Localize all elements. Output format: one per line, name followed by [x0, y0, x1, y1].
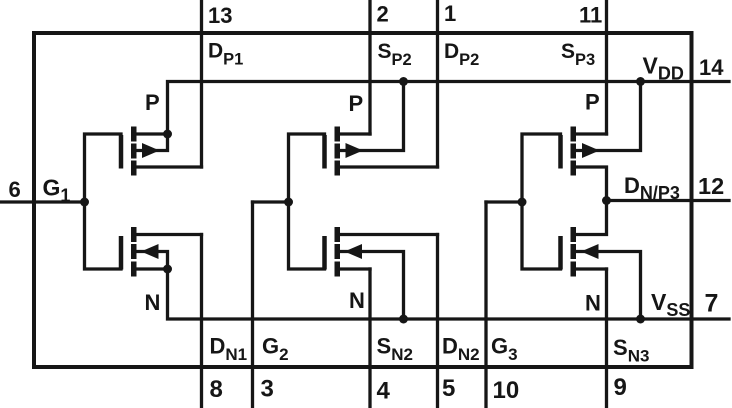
svg-text:3: 3	[261, 376, 274, 403]
drain lead N2	[339, 233, 438, 236]
svg-text:P: P	[585, 90, 600, 115]
channel dashes N1	[131, 227, 137, 277]
junction node G1	[80, 198, 89, 207]
gate bar N2	[322, 236, 327, 270]
svg-text:DP1: DP1	[208, 40, 243, 69]
svg-text:G3: G3	[491, 334, 518, 365]
gate bar N1	[119, 236, 124, 270]
source lead N2	[339, 267, 371, 270]
channel dashes N2	[335, 227, 341, 277]
pin 5 stub / wire D_N2	[436, 235, 439, 408]
pin 6 lead / node G1	[0, 200, 85, 203]
svg-text:7: 7	[705, 290, 719, 318]
junction P2 bulk on VDD rail	[399, 77, 408, 86]
wire gate lead N2	[289, 202, 325, 269]
svg-text:N: N	[145, 290, 161, 315]
svg-text:DN2: DN2	[442, 334, 480, 365]
drain lead N1	[135, 233, 202, 236]
svg-text:G2: G2	[262, 334, 289, 365]
junction node G2	[284, 198, 293, 207]
channel dashes N3	[571, 227, 577, 277]
gate bar N3	[558, 236, 563, 270]
wire G2 horizontal	[253, 200, 289, 203]
wire gate lead P2	[289, 134, 325, 202]
channel dashes P3	[571, 127, 577, 176]
p-mos P3	[522, 77, 645, 202]
svg-text:SP3: SP3	[561, 40, 595, 69]
source lead N3	[575, 267, 607, 270]
source lead P2	[339, 132, 371, 135]
svg-text:14: 14	[699, 55, 724, 80]
drain lead P1	[135, 165, 202, 168]
gate bar P2	[322, 135, 327, 169]
junction P3 bulk on VDD rail	[636, 77, 645, 86]
svg-text:2: 2	[377, 2, 389, 27]
svg-text:11: 11	[579, 3, 602, 28]
svg-text:SN2: SN2	[377, 334, 413, 365]
junction node D_N/P3	[602, 196, 611, 205]
svg-text:VDD: VDD	[643, 53, 684, 84]
svg-text:P: P	[349, 91, 364, 116]
n-mos N1	[85, 202, 202, 277]
gate bar P3	[558, 135, 563, 169]
source lead N1	[135, 267, 168, 270]
svg-text:SP2: SP2	[378, 40, 412, 69]
svg-text:N: N	[349, 288, 365, 313]
pin 2 stub / wire to S_P2 source	[368, 0, 371, 134]
pin 13 stub / wire to D_P1 drain	[200, 0, 203, 167]
drain lead P3 down to node D_N/P3	[575, 167, 607, 201]
op P-MOS P1	[85, 127, 202, 203]
VSS rail (pin 7 net)	[168, 269, 730, 319]
bulk lead N3 with arrow to VSS	[575, 252, 641, 320]
junction node G3	[518, 198, 527, 207]
VDD rail (pin 14 net)	[168, 82, 730, 135]
n-mos N2	[289, 202, 438, 324]
svg-text:VSS: VSS	[651, 289, 690, 320]
pin 11 stub / wire to S_P3 source	[605, 0, 608, 134]
bulk lead P1 with arrow	[135, 134, 168, 151]
node D_N/P3 wire to pin 12	[607, 199, 730, 202]
drain lead N3 up to node D_N/P3	[575, 201, 607, 235]
pin 9 stub / wire S_N3	[605, 269, 608, 408]
channel dashes P2	[335, 127, 341, 176]
svg-text:8: 8	[210, 376, 223, 403]
n-mos N3	[522, 201, 645, 324]
source lead P1	[135, 132, 168, 135]
bulk lead N1 with arrow	[135, 252, 168, 270]
wire gate lead N3	[522, 202, 561, 269]
svg-text:6: 6	[9, 177, 21, 202]
pin 1 stub / wire to D_P2 drain	[436, 0, 439, 167]
svg-text:1: 1	[444, 1, 456, 26]
svg-text:4: 4	[377, 378, 391, 405]
junction N1 source-bulk	[163, 265, 172, 274]
svg-text:P: P	[145, 90, 160, 115]
bulk lead P2 with arrow to VDD	[339, 82, 404, 151]
package outline	[34, 33, 692, 367]
junction P1 source-bulk	[163, 130, 172, 139]
drain lead P2	[339, 165, 438, 168]
svg-text:N: N	[585, 291, 601, 316]
svg-text:SN3: SN3	[613, 335, 649, 366]
svg-text:9: 9	[614, 374, 627, 401]
pin 8 stub / wire D_N1	[200, 235, 203, 408]
pin 4 stub / wire S_N2	[368, 269, 371, 408]
svg-text:DN1: DN1	[210, 334, 248, 365]
wire gate lead N1	[85, 202, 122, 269]
svg-text:DN/P3: DN/P3	[624, 173, 680, 203]
p-mos P2	[289, 77, 438, 202]
svg-text:DP2: DP2	[444, 40, 479, 69]
svg-text:10: 10	[493, 377, 520, 404]
pin 3 stub / wire G_2 riser	[251, 202, 254, 408]
pin 10 stub / wire G_3 riser	[484, 202, 487, 408]
wire G3 horizontal	[486, 200, 522, 203]
junction N3 bulk on VSS rail	[636, 315, 645, 324]
gate bar P1	[119, 135, 124, 169]
svg-text:12: 12	[698, 173, 724, 199]
junction N2 bulk on VSS rail	[399, 315, 408, 324]
svg-text:5: 5	[442, 375, 455, 402]
channel dashes P1	[131, 127, 137, 176]
wire gate lead P1	[85, 134, 122, 202]
source lead P3	[575, 132, 607, 135]
svg-text:13: 13	[208, 3, 232, 28]
bulk lead P3 with arrow to VDD	[575, 82, 641, 151]
bulk lead N2 with arrow to VSS	[339, 252, 404, 320]
wire gate lead P3	[522, 134, 561, 202]
